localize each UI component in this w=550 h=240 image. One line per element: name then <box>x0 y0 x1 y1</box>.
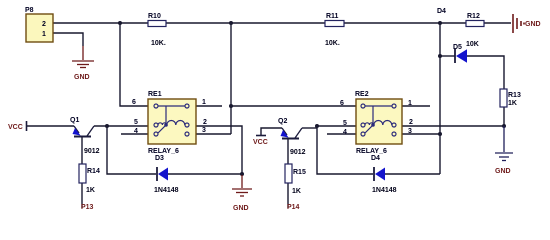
svg-text:R13: R13 <box>508 92 521 99</box>
wire rail R10 to R11 <box>166 22 325 24</box>
diode D4 1N4148 <box>371 155 397 194</box>
wire R14 to P13 <box>81 183 83 208</box>
wire P8 pin1 to GND1 <box>53 33 83 46</box>
svg-text:GND: GND <box>525 21 541 28</box>
wire relay1 pin4 stub <box>121 133 148 135</box>
relay RE2 <box>340 91 413 155</box>
wire vertical net D4 rail down <box>439 23 441 174</box>
wire relay1 pin1 stub <box>196 105 222 107</box>
svg-text:R14: R14 <box>87 168 100 175</box>
wire relay2 pin2 to R13 node <box>402 125 504 127</box>
svg-text:1: 1 <box>408 100 412 107</box>
svg-text:VCC: VCC <box>253 139 268 146</box>
wire Q2 base down to R15 <box>287 139 289 164</box>
svg-text:GND: GND <box>74 74 90 81</box>
svg-text:4: 4 <box>343 129 347 136</box>
svg-text:6: 6 <box>340 100 344 107</box>
svg-text:2: 2 <box>409 119 413 126</box>
junction node dots <box>105 21 506 176</box>
resistor R11 <box>325 13 344 47</box>
svg-text:3: 3 <box>408 128 412 135</box>
svg-text:P8: P8 <box>25 7 34 14</box>
wire vertical rail to relay1 pin6 <box>120 23 148 106</box>
wire R15 to P14 <box>287 183 289 208</box>
relay RE1 <box>132 91 207 155</box>
svg-text:D3: D3 <box>155 155 164 162</box>
resistor R10 <box>148 13 166 47</box>
wire relay2 pin3 <box>402 133 440 135</box>
resistor R15 <box>285 164 306 195</box>
svg-text:P13: P13 <box>81 204 94 211</box>
svg-text:R10: R10 <box>148 13 161 20</box>
emitter arrow of Q2 <box>281 130 289 138</box>
svg-text:1K: 1K <box>292 188 301 195</box>
svg-text:RELAY_6: RELAY_6 <box>356 148 387 155</box>
svg-text:9012: 9012 <box>290 149 306 156</box>
diode D5 <box>453 41 479 63</box>
svg-text:RE2: RE2 <box>355 91 369 98</box>
svg-text:4: 4 <box>134 128 138 135</box>
svg-text:R11: R11 <box>326 13 339 20</box>
resistor R12 <box>466 13 484 27</box>
resistor R13 <box>500 89 521 107</box>
wire Q1 node down to D3 <box>107 126 156 174</box>
wire D4 anode to vertical <box>385 173 440 175</box>
svg-text:RELAY_6: RELAY_6 <box>148 148 179 155</box>
wire D3 anode to GND2 node <box>168 173 242 175</box>
wire VCC1 to Q1 emitter <box>27 125 74 127</box>
svg-text:1: 1 <box>202 99 206 106</box>
svg-text:5: 5 <box>134 119 138 126</box>
svg-text:D4: D4 <box>371 155 380 162</box>
wire R13 bottom to node <box>503 107 505 126</box>
resistor R14 <box>79 164 100 194</box>
transistor Q1 (9012 PNP) <box>70 117 100 155</box>
svg-text:1K: 1K <box>508 100 517 107</box>
emitter arrow of Q1 <box>73 128 81 136</box>
svg-text:GND: GND <box>495 168 511 175</box>
svg-text:2: 2 <box>42 21 46 28</box>
diode D3 1N4148 <box>154 155 179 194</box>
power port VCC1 <box>8 121 27 131</box>
svg-text:10K.: 10K. <box>151 40 166 47</box>
power ground bars (top right) <box>513 14 524 33</box>
connector P8 <box>25 7 53 42</box>
wire rail R11 to R12 <box>344 22 466 24</box>
svg-text:GND: GND <box>233 205 249 212</box>
svg-text:Q1: Q1 <box>70 117 79 124</box>
svg-text:6: 6 <box>132 99 136 106</box>
wire node to relay2 pin6 <box>231 105 356 107</box>
svg-text:2: 2 <box>203 119 207 126</box>
ground GND3 (bottom right) <box>495 126 513 161</box>
wire vertical rail to relay1 pin3 / relay2 pin6 <box>230 23 232 134</box>
ground GND2 (below relay1) <box>232 175 252 196</box>
svg-text:1K: 1K <box>86 187 95 194</box>
ground GND1 (below P8) <box>72 46 94 68</box>
wire relay1 pin2 down to GND2 node <box>196 126 242 174</box>
wire relay2 pin4 stub <box>327 133 356 135</box>
power port VCC2 <box>253 136 268 147</box>
svg-text:RE1: RE1 <box>148 91 162 98</box>
svg-text:9012: 9012 <box>84 148 100 155</box>
svg-text:VCC: VCC <box>8 124 23 131</box>
wire relay1 pin3 <box>196 133 231 135</box>
wire Q1 collector to relay1 pin5 <box>94 125 148 127</box>
wire Q1 base down to R14 <box>81 137 83 164</box>
wire Q2 collector to relay2 pin5 <box>302 127 317 129</box>
svg-text:10K.: 10K. <box>325 40 340 47</box>
svg-text:10K: 10K <box>466 41 479 48</box>
svg-text:5: 5 <box>343 120 347 127</box>
wire rail R12 to GND bars <box>484 22 511 24</box>
svg-text:R12: R12 <box>467 13 480 20</box>
transistor Q2 (9012 PNP) <box>278 118 306 156</box>
wire D5 cathode to vertical <box>440 55 455 57</box>
svg-text:R15: R15 <box>293 169 306 176</box>
wire D5 anode to R13 top <box>466 56 504 89</box>
wire top rail segment P8 to R10 <box>27 23 511 208</box>
svg-text:3: 3 <box>202 127 206 134</box>
svg-text:Q2: Q2 <box>278 118 287 125</box>
svg-text:1: 1 <box>42 31 46 38</box>
wire relay2 pin1 stub <box>402 105 430 107</box>
svg-text:D4: D4 <box>437 8 446 15</box>
svg-text:P14: P14 <box>287 204 300 211</box>
wire Q2 node down to D4 <box>317 126 373 174</box>
wire VCC2 to Q2 emitter <box>261 128 282 135</box>
svg-text:1N4148: 1N4148 <box>154 187 179 194</box>
svg-text:1N4148: 1N4148 <box>372 187 397 194</box>
